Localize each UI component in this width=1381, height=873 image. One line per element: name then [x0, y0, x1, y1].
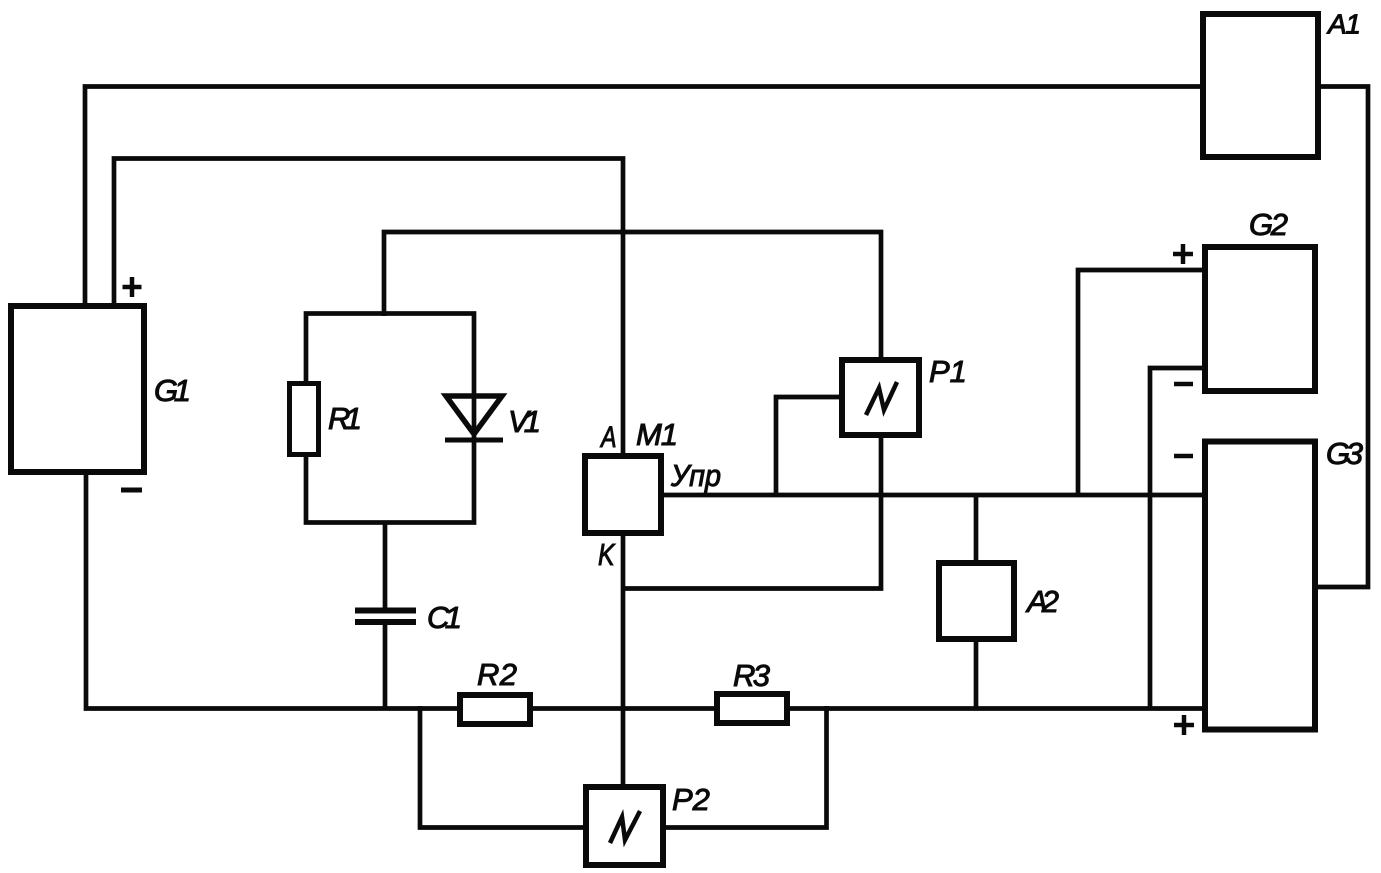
- svg-text:Упр: Упр: [670, 458, 721, 493]
- wire Upr net: M1 right to G3 left: [662, 493, 1204, 498]
- wire R1/V1 parallel loop: [306, 314, 474, 523]
- resistor R2: [460, 695, 530, 724]
- svg-text:P2: P2: [672, 782, 710, 817]
- meter P1 needle symbol: [866, 382, 897, 415]
- svg-text:G1: G1: [154, 373, 191, 408]
- svg-text:R1: R1: [328, 401, 362, 436]
- polarity minus G1: [121, 488, 142, 493]
- polarity minus G3: [1174, 454, 1193, 459]
- svg-text:R3: R3: [733, 658, 770, 693]
- svg-text:M1: M1: [636, 417, 678, 452]
- wire top net: G1 plus to A1 left: [85, 87, 1203, 308]
- wire loop bottom to C1: [383, 521, 388, 611]
- meter P2: [586, 787, 663, 865]
- wire G2 minus tap down to bottom rail: [1150, 368, 1204, 709]
- resistor R3: [717, 694, 787, 723]
- wire third net: R1/V1 loop top to P1 top: [384, 232, 881, 361]
- wire A1 right to G3 right: [1316, 87, 1368, 588]
- svg-text:A1: A1: [1326, 9, 1361, 40]
- diode V1 triangle: [446, 396, 502, 434]
- polarity minus G2: [1174, 382, 1193, 387]
- resistor R1: [290, 384, 319, 455]
- capacitor C1 top plate: [355, 608, 416, 614]
- svg-text:G3: G3: [1326, 436, 1363, 471]
- diode V1 cathode bar: [445, 438, 503, 443]
- polarity plus G2: [1173, 244, 1193, 264]
- svg-text:K: K: [598, 537, 616, 572]
- block A1: [1203, 14, 1318, 157]
- svg-text:P1: P1: [929, 354, 967, 389]
- block G1: [11, 306, 144, 472]
- wire P1 bottom to K vertical: [623, 436, 881, 589]
- capacitor C1 bottom plate: [355, 619, 416, 625]
- wire G2 plus tap down to Upr net: [1078, 270, 1204, 497]
- block M1 trigger: [585, 456, 661, 533]
- block G2: [1205, 247, 1315, 391]
- polarity plus G1: [123, 277, 142, 297]
- polarity plus G3: [1174, 715, 1194, 735]
- svg-text:G2: G2: [1249, 207, 1288, 242]
- svg-text:R2: R2: [477, 657, 517, 692]
- wire second net: G1 plus2 to M1 anode A: [114, 159, 623, 456]
- wire bottom rail from G1 minus: [86, 472, 1204, 709]
- svg-text:A: A: [599, 421, 616, 454]
- wire M1 cathode K down to P2: [621, 534, 626, 788]
- wire A2 vertical through Upr and bottom rail: [974, 493, 979, 709]
- meter P1: [842, 360, 919, 435]
- svg-text:C1: C1: [427, 600, 462, 635]
- meter P2 needle symbol: [610, 811, 640, 843]
- svg-text:V1: V1: [508, 404, 541, 439]
- block A2: [939, 563, 1014, 639]
- wire C1 to bottom rail: [383, 621, 388, 710]
- svg-text:A2: A2: [1025, 584, 1059, 619]
- wire P1 left tap down to Upr net: [776, 397, 841, 497]
- block G3: [1205, 442, 1315, 730]
- wire P2 measuring loop: [420, 706, 827, 828]
